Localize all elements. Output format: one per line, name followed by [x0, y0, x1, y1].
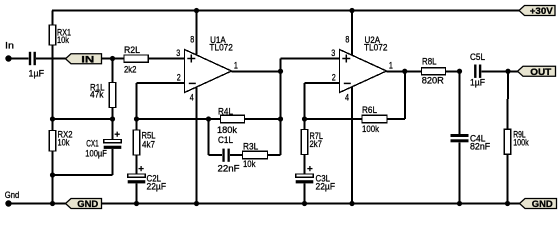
- svg-text:IN: IN: [81, 53, 94, 64]
- svg-text:8: 8: [190, 34, 194, 44]
- svg-text:820R: 820R: [422, 75, 444, 86]
- svg-text:100k: 100k: [513, 138, 529, 149]
- svg-text:4k7: 4k7: [142, 139, 155, 150]
- svg-text:GND: GND: [532, 198, 553, 209]
- svg-text:In: In: [5, 40, 14, 51]
- svg-text:10k: 10k: [243, 159, 256, 170]
- svg-text:10k: 10k: [57, 35, 69, 46]
- svg-text:R2L: R2L: [124, 45, 140, 56]
- svg-text:22µF: 22µF: [316, 181, 336, 192]
- svg-text:R3L: R3L: [243, 142, 258, 153]
- svg-text:1µF: 1µF: [470, 78, 485, 89]
- svg-text:+30V: +30V: [530, 5, 554, 16]
- svg-text:1: 1: [234, 60, 238, 70]
- svg-text:3: 3: [176, 48, 180, 58]
- svg-text:R8L: R8L: [422, 57, 437, 68]
- svg-text:3: 3: [331, 48, 335, 58]
- svg-text:47k: 47k: [90, 90, 104, 101]
- svg-text:1µF: 1µF: [29, 68, 45, 79]
- svg-text:82nF: 82nF: [470, 141, 490, 152]
- svg-text:4: 4: [345, 92, 349, 102]
- svg-text:TL072: TL072: [209, 42, 233, 53]
- svg-text:GND: GND: [77, 198, 98, 209]
- svg-text:2k2: 2k2: [124, 65, 137, 76]
- svg-text:R4L: R4L: [218, 106, 233, 117]
- svg-text:22nF: 22nF: [218, 164, 240, 175]
- svg-text:100µF: 100µF: [85, 148, 107, 159]
- svg-text:2: 2: [332, 73, 336, 83]
- svg-text:C5L: C5L: [470, 52, 485, 63]
- svg-text:TL072: TL072: [364, 42, 388, 53]
- svg-text:4: 4: [190, 92, 194, 102]
- svg-text:Gnd: Gnd: [5, 190, 19, 201]
- svg-text:C1L: C1L: [218, 135, 233, 146]
- svg-text:2: 2: [177, 73, 181, 83]
- svg-text:22µF: 22µF: [147, 181, 167, 192]
- svg-text:10k: 10k: [58, 137, 70, 148]
- svg-text:8: 8: [345, 34, 349, 44]
- svg-text:R6L: R6L: [362, 105, 377, 116]
- svg-text:1: 1: [389, 60, 393, 70]
- svg-text:100k: 100k: [362, 124, 379, 135]
- svg-text:OUT: OUT: [530, 66, 551, 77]
- svg-text:2k7: 2k7: [310, 139, 323, 150]
